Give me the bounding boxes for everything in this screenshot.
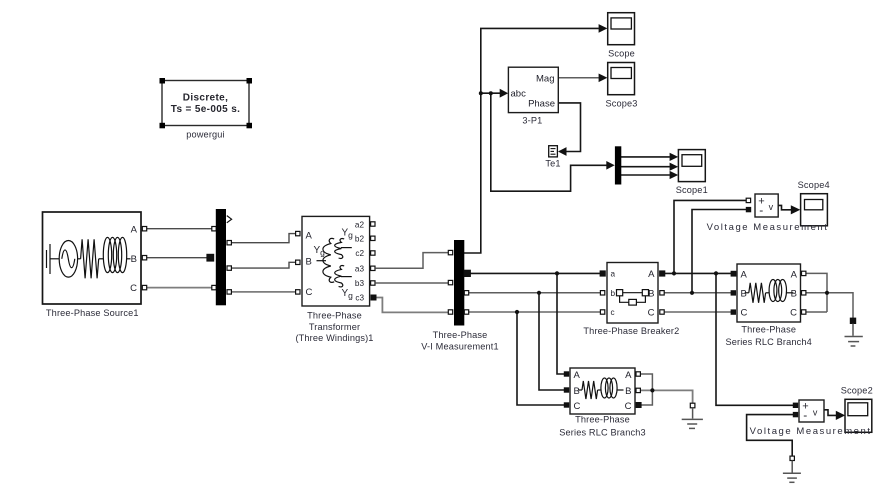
svg-text:C: C (625, 401, 632, 412)
junction node phase B to VM1 (690, 291, 694, 295)
port marker VM1 plus (746, 198, 750, 202)
selection handle powergui top-right (247, 78, 253, 84)
block Three-Phase Series RLC Branch3 (570, 368, 635, 414)
wire phase B tap down to RLC branch3 B (539, 293, 565, 390)
svg-text:A: A (741, 269, 748, 280)
svg-text:-: - (803, 408, 807, 422)
svg-text:Series RLC Branch3: Series RLC Branch3 (559, 428, 645, 438)
arrowhead into Scope1 in1 (670, 153, 679, 161)
wire breaker C to RLC branch4 C (663, 311, 732, 313)
svg-text:powergui: powergui (186, 130, 224, 140)
port marker bus1 out3 (227, 290, 231, 294)
ground 3 (below VM2) (783, 461, 801, 483)
svg-text:B: B (741, 289, 747, 300)
block 3-P1 (508, 67, 558, 112)
block Three-Phase Transformer (Three Windings)1 (302, 216, 370, 306)
svg-text:a3: a3 (355, 265, 365, 274)
svg-text:Mag: Mag (536, 73, 554, 84)
port marker source B (142, 256, 146, 260)
wire tap phase B up to Voltage Measurement minus (692, 210, 747, 293)
junction node Vabc to demux (489, 91, 493, 95)
svg-text:C: C (648, 308, 655, 319)
ground 1 (after RLC branch3) (682, 403, 703, 428)
wire Voltage Measurement output to Scope4 (778, 205, 791, 209)
port marker RLC3 C out (filled) (636, 402, 641, 407)
port marker source A (142, 227, 146, 231)
svg-text:A: A (574, 370, 581, 381)
svg-text:Three-Phase: Three-Phase (575, 415, 630, 425)
svg-text:Scope: Scope (608, 49, 635, 59)
wire phase C tap down to RLC branch3 C (517, 312, 565, 405)
wire transformer a3 to V-I measurement input 1 (376, 253, 449, 269)
wire RLC branch3 A output merge (640, 374, 653, 390)
svg-text:a2: a2 (355, 220, 365, 229)
svg-text:Three-Phase: Three-Phase (307, 310, 362, 320)
port marker bus1 A (212, 227, 216, 231)
svg-text:C: C (130, 283, 137, 294)
wire Vabc from V-I measurement up to Scope (464, 28, 599, 253)
port marker transformer B (296, 260, 300, 264)
wire breaker B to RLC branch4 B (663, 292, 732, 294)
svg-text:Three-Phase: Three-Phase (433, 330, 488, 340)
svg-text:c: c (611, 308, 615, 317)
port marker breaker A (filled) (660, 271, 665, 276)
svg-text:b3: b3 (355, 279, 365, 288)
arrowhead into Scope (599, 24, 608, 33)
unconnected output chevron on bus bar 1 (227, 216, 232, 223)
wire bus1 out1 to transformer A (230, 234, 297, 243)
arrowhead into Scope1 in3 (670, 171, 679, 179)
port marker V-I output 2 (464, 291, 468, 295)
port marker V-I output 1 (filled) (464, 270, 471, 277)
svg-text:-: - (759, 203, 763, 217)
block Three-Phase Series RLC Branch4 (737, 264, 801, 322)
svg-text:c3: c3 (355, 294, 364, 303)
port marker bus1 B (large) (207, 254, 214, 261)
svg-text:V-I Measurement1: V-I Measurement1 (421, 342, 498, 352)
port marker bus1 out2 (227, 266, 231, 270)
arrowhead into Scope4 (791, 205, 801, 214)
svg-text:3-P1: 3-P1 (522, 115, 542, 125)
arrowhead into 3-P1 abc (500, 89, 509, 98)
wire branch Vabc down to demux input (491, 93, 607, 191)
block Scope (608, 13, 635, 45)
svg-text:B: B (648, 289, 654, 300)
wire tap phase A up to Voltage Measurement plus (674, 200, 747, 273)
bus bar 1 (216, 209, 226, 305)
svg-text:c2: c2 (355, 249, 364, 258)
wire demux out2 to Scope1 in2 (621, 166, 670, 168)
svg-text:abc: abc (511, 88, 527, 99)
svg-text:Three-Phase: Three-Phase (741, 325, 796, 335)
port marker transformer c3 (filled) (371, 295, 376, 300)
wire bus1 out2 to transformer B (230, 262, 297, 268)
selection handle powergui bottom-left (160, 123, 166, 129)
block Voltage Measurement (VM2) (799, 400, 824, 422)
port marker breaker C (660, 310, 664, 314)
junction node phase C to RLC3 (515, 310, 519, 314)
wire bus1 out3 to transformer C (230, 291, 297, 293)
block Scope1 (678, 150, 705, 182)
port marker bus1 C (212, 285, 216, 289)
svg-text:Discrete,: Discrete, (183, 92, 228, 103)
port marker RLC3 A in (filled) (564, 372, 569, 377)
port marker RLC4 B out (802, 291, 806, 295)
junction node phase A to RLC3 (555, 271, 559, 275)
junction node RLC4 outputs (825, 291, 829, 295)
port marker RLC4 A in (filled) (731, 271, 736, 276)
svg-text:Ts = 5e-005 s.: Ts = 5e-005 s. (171, 104, 240, 115)
port marker RLC3 B in (filled) (564, 388, 569, 393)
svg-text:Yg: Yg (342, 288, 354, 301)
port marker transformer a3 (371, 266, 375, 270)
svg-text:C: C (306, 287, 313, 298)
port marker V-I input 3 (448, 310, 452, 314)
svg-text:Scope2: Scope2 (841, 386, 873, 396)
port marker RLC4 C in (filled) (731, 310, 736, 315)
demux bar (615, 146, 621, 184)
junction node Vabc to 3-P1 (479, 91, 483, 95)
port marker transformer b2 (371, 236, 375, 240)
wire breaker A to RLC branch4 A (663, 272, 732, 274)
port marker RLC4 B in (filled) (731, 291, 736, 296)
wire demux out1 to Scope1 in1 (621, 156, 670, 158)
svg-text:Scope3: Scope3 (605, 98, 637, 108)
svg-text:B: B (306, 257, 312, 268)
wire 3-P1 Phase to Te1 (558, 103, 580, 152)
wire 3-P1 Mag to Scope3 (558, 77, 599, 79)
block Three-Phase V-I Measurement1 (bar) (454, 240, 464, 326)
svg-text:Series RLC Branch4: Series RLC Branch4 (725, 337, 811, 347)
wire phase C from V-I measurement to breaker c (468, 311, 600, 313)
junction node phase A to VM1 (672, 271, 676, 275)
block Te1 (terminator) (549, 146, 558, 157)
block Voltage Measurement (VM1) (755, 194, 778, 217)
port marker source C (142, 285, 146, 289)
port marker transformer b3 (371, 281, 375, 285)
wire phase B from V-I measurement to breaker b (468, 292, 600, 294)
svg-text:Yg: Yg (342, 227, 354, 240)
svg-text:Phase: Phase (528, 98, 555, 109)
svg-text:C: C (790, 308, 797, 319)
wire demux out3 to Scope1 in3 (621, 174, 670, 176)
wire transformer c3 to V-I measurement input 3 (376, 298, 448, 313)
wire RLC branch4 B output to ground2 (805, 293, 853, 319)
port marker transformer c2 (371, 251, 375, 255)
wire source B to bus1 (146, 257, 210, 259)
port marker RLC4 A out (802, 271, 806, 275)
arrowhead into demux (606, 161, 614, 170)
block Scope2 (845, 399, 872, 432)
port marker V-I input 1 (448, 250, 452, 254)
svg-text:Three-Phase Breaker2: Three-Phase Breaker2 (583, 326, 679, 336)
svg-text:B: B (791, 289, 797, 300)
svg-text:a: a (611, 270, 616, 279)
wire source A to bus1 (146, 228, 214, 230)
port marker transformer A (296, 231, 300, 235)
selection handle powergui bottom-right (247, 123, 253, 129)
wire tap phase A down to Voltage Measurement2 plus (716, 273, 793, 405)
svg-text:b: b (611, 289, 616, 298)
svg-text:Scope4: Scope4 (798, 180, 830, 190)
arrowhead into Scope1 in2 (670, 163, 679, 171)
wire Voltage Measurement2 minus loop to ground3 (747, 415, 795, 456)
port marker breaker b (600, 291, 604, 295)
port marker ground3 (790, 456, 794, 460)
wire source C to bus1 (146, 287, 214, 289)
block powergui (160, 78, 253, 128)
port marker breaker c (600, 310, 604, 314)
arrowhead into Te1 (pointing left) (558, 147, 567, 156)
port marker VM2 minus (filled) (793, 412, 798, 417)
svg-text:A: A (131, 224, 138, 235)
svg-text:B: B (131, 254, 137, 265)
port marker V-I input 2 (448, 280, 452, 284)
port marker RLC3 A out (636, 372, 640, 376)
wire phase A from V-I measurement to breaker a (468, 272, 600, 274)
svg-text:Voltage Measurement: Voltage Measurement (750, 426, 872, 437)
svg-text:Three-Phase Source1: Three-Phase Source1 (46, 308, 139, 318)
junction node phase B to RLC3 (537, 291, 541, 295)
wire RLC branch3 B output to ground1 (640, 390, 693, 403)
arrowhead into Scope3 (599, 74, 608, 83)
junction node phase A to VM2 (714, 271, 718, 275)
port marker breaker a (filled) (600, 271, 605, 276)
svg-text:b2: b2 (355, 235, 365, 244)
svg-text:Te1: Te1 (545, 159, 560, 169)
svg-text:Transformer: Transformer (309, 322, 360, 332)
svg-text:A: A (648, 269, 655, 280)
svg-text:A: A (306, 231, 313, 242)
svg-text:Voltage Measurement: Voltage Measurement (707, 222, 829, 233)
wire RLC branch3 C output merge (640, 390, 653, 405)
junction node RLC3 outputs (650, 388, 654, 392)
svg-text:B: B (625, 386, 631, 397)
wire RLC branch4 C output merge (same vertical) (805, 311, 827, 313)
port marker breaker B (660, 291, 664, 295)
wire transformer b3 to V-I measurement input 2 (376, 282, 449, 284)
svg-text:(Three Windings)1: (Three Windings)1 (295, 333, 373, 343)
wire phase A tap down to RLC branch3 A (557, 273, 565, 374)
block Scope3 (608, 63, 635, 95)
port marker V-I output 3 (464, 310, 468, 314)
selection handle powergui top-left (160, 78, 166, 84)
port marker RLC3 B out (636, 388, 640, 392)
ground 2 (after RLC branch4) (845, 318, 863, 346)
svg-text:Yg: Yg (314, 245, 326, 258)
svg-text:v: v (813, 407, 818, 417)
block Scope4 (801, 194, 828, 226)
port marker transformer a2 (371, 222, 375, 226)
block Three-Phase Breaker2 (607, 263, 658, 324)
svg-text:A: A (625, 370, 632, 381)
port marker VM1 minus (filled) (746, 207, 751, 212)
svg-text:Scope1: Scope1 (676, 185, 708, 195)
port marker VM2 plus (filled) (793, 403, 798, 408)
port marker RLC4 C out (802, 310, 806, 314)
port marker RLC3 C in (filled) (564, 403, 569, 408)
arrowhead into Scope2 (836, 411, 845, 420)
wire RLC branch4 A output merge (805, 273, 827, 312)
svg-text:v: v (769, 202, 774, 212)
port marker bus1 out1 (227, 241, 231, 245)
svg-text:C: C (574, 401, 581, 412)
block Three-Phase Source1 (43, 212, 142, 304)
port marker transformer C (296, 290, 300, 294)
svg-text:A: A (791, 269, 798, 280)
svg-text:B: B (574, 386, 580, 397)
wire Voltage Measurement2 output to Scope2 (824, 410, 837, 416)
svg-text:C: C (741, 308, 748, 319)
wire branch Vabc to 3-P1 abc input (481, 92, 500, 94)
